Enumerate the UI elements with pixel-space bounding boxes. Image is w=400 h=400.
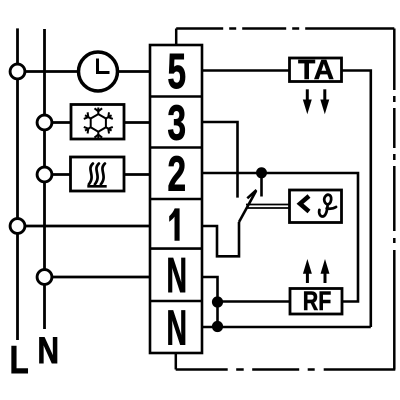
svg-text:TA: TA [298,54,334,85]
svg-text:N: N [167,249,188,303]
svg-text:RF: RF [303,286,332,316]
svg-text:L: L [10,339,29,382]
svg-text:N: N [167,301,188,355]
svg-text:N: N [38,329,60,371]
svg-text:3: 3 [168,96,187,150]
svg-text:5: 5 [168,45,187,99]
svg-text:2: 2 [168,148,187,202]
